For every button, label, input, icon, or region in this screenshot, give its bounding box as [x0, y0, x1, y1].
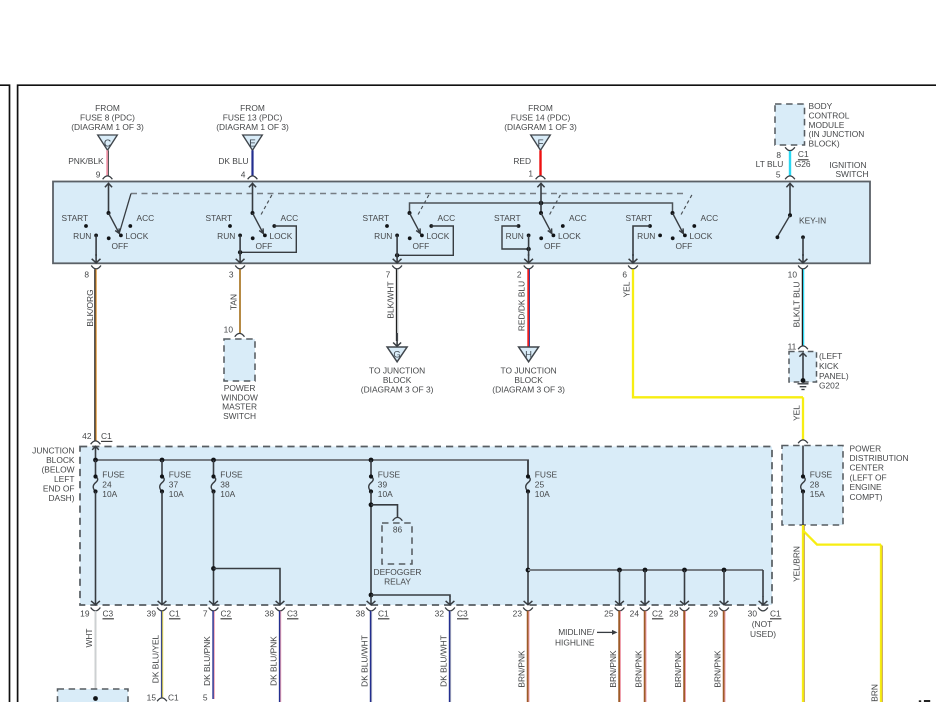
svg-text:DISTRIBUTION: DISTRIBUTION: [850, 453, 909, 463]
contact LOCK: [263, 234, 267, 238]
svg-text:(DIAGRAM 3 OF 3): (DIAGRAM 3 OF 3): [492, 385, 565, 395]
connector arc pin 42: [91, 441, 101, 444]
contact START: [517, 224, 521, 228]
svg-text:RUN: RUN: [217, 231, 235, 241]
switch blade: [410, 213, 420, 232]
connector arc pin 38: [366, 608, 376, 611]
svg-text:38: 38: [265, 609, 275, 619]
svg-text:4: 4: [241, 170, 246, 180]
connector arc pin 29: [719, 608, 729, 611]
wire START contact to output: [502, 226, 529, 249]
svg-text:FUSE: FUSE: [169, 470, 192, 480]
svg-text:15A: 15A: [810, 489, 825, 499]
svg-text:FUSE: FUSE: [810, 470, 833, 480]
svg-text:G: G: [393, 350, 400, 361]
svg-text:FUSE: FUSE: [220, 470, 243, 480]
svg-text:8: 8: [84, 270, 89, 280]
wire to pin 30 (not used): [762, 570, 764, 597]
svg-text:1: 1: [528, 169, 533, 179]
svg-text:SWITCH: SWITCH: [835, 169, 868, 179]
wire fuse 39 to pin 38: [370, 492, 372, 597]
wire switch input to box top edge: [540, 183, 542, 213]
wire BRN/PNK pin 25: [618, 611, 620, 702]
junction block output arrow pin 28: [684, 596, 686, 605]
connector arc pin 15: [157, 698, 167, 701]
svg-text:BRN/PNK: BRN/PNK: [634, 650, 644, 688]
contact LOCK: [552, 234, 556, 238]
node bus at fuse 24: [93, 458, 98, 463]
connector arc pin 32: [445, 608, 455, 611]
svg-text:START: START: [62, 213, 89, 223]
svg-text:ACC: ACC: [281, 213, 299, 223]
junction block output arrow pin 23: [527, 596, 529, 605]
svg-text:(NOT: (NOT: [752, 619, 772, 629]
svg-text:39: 39: [378, 480, 388, 490]
svg-text:START: START: [363, 213, 390, 223]
wire to pin 29: [723, 570, 725, 596]
svg-text:END OF: END OF: [43, 484, 75, 494]
svg-text:7: 7: [203, 609, 208, 619]
wire PDC entry to fuse 28: [802, 446, 804, 477]
blade link (solid): [120, 194, 132, 233]
switch blade: [109, 213, 119, 232]
connector arc pin 19: [91, 608, 101, 611]
wire BLK/LT BLU pin 10 to ground G202: [801, 269, 803, 346]
junction block output arrow pin 32: [449, 596, 451, 605]
connector triangle F: [531, 135, 551, 150]
connector arc pin 38: [275, 608, 285, 611]
contact LOCK: [683, 234, 687, 238]
connector arc ignition pin 6: [628, 266, 638, 269]
svg-text:JUNCTION: JUNCTION: [32, 446, 74, 456]
svg-text:PANEL): PANEL): [819, 371, 849, 381]
svg-text:25: 25: [535, 480, 545, 490]
svg-text:TAN: TAN: [229, 294, 239, 310]
svg-text:30: 30: [748, 609, 758, 619]
svg-text:RUN: RUN: [73, 231, 91, 241]
svg-text:RELAY: RELAY: [384, 577, 411, 587]
contact LOCK: [119, 234, 123, 238]
connector arc ignition pin 7: [392, 266, 402, 269]
node fuse25 branch: [526, 568, 531, 573]
svg-text:7: 7: [386, 270, 391, 280]
contact RUN: [94, 234, 98, 238]
svg-text:DK BLU/PNK: DK BLU/PNK: [269, 636, 279, 686]
power window master switch (dashed box): [224, 339, 255, 381]
ground node: [801, 378, 806, 383]
connector arc pin 25: [615, 608, 625, 611]
wire switch output to box bottom edge: [239, 235, 241, 256]
svg-text:(DIAGRAM 1 OF 3): (DIAGRAM 1 OF 3): [71, 122, 144, 132]
connector arc pin 24: [640, 608, 650, 611]
svg-text:32: 32: [435, 609, 445, 619]
junction block output arrow pin 19: [95, 596, 97, 605]
contact OFF: [107, 236, 111, 240]
bus wire pin1 to switch poles 3-4-5: [410, 203, 673, 213]
svg-text:23: 23: [513, 609, 523, 619]
fuse 24 10A: [95, 460, 97, 477]
svg-text:19: 19: [80, 609, 90, 619]
connector arc pin 9: [103, 176, 113, 179]
svg-text:USED): USED): [750, 629, 776, 639]
svg-text:BRN/PNK: BRN/PNK: [673, 650, 683, 688]
svg-text:ACC: ACC: [701, 213, 719, 223]
svg-text:C1: C1: [798, 149, 809, 159]
svg-text:10A: 10A: [220, 489, 235, 499]
svg-text:H: H: [525, 350, 532, 361]
wire switch output to box bottom edge: [528, 235, 530, 256]
contact RUN: [658, 234, 662, 238]
svg-text:RED: RED: [513, 156, 531, 166]
node fuse39 to defogger relay: [369, 502, 374, 507]
junction block output arrow pin 30: [762, 596, 764, 605]
svg-text:WHT: WHT: [84, 628, 94, 647]
connector arc ignition pin 3: [235, 266, 245, 269]
svg-text:OFF: OFF: [112, 241, 129, 251]
power distribution center (dashed box): [782, 446, 843, 526]
contact RUN: [238, 234, 242, 238]
key-in output contact: [801, 235, 805, 239]
connector triangle H: [519, 347, 539, 362]
connector arc BCM pin 8 C1: [785, 147, 795, 150]
wire BRN/PNK pin 24: [644, 611, 646, 702]
svg-text:BLK/WHT: BLK/WHT: [385, 281, 395, 318]
svg-text:BRN/PNK: BRN/PNK: [713, 650, 723, 688]
connector arc pin 4: [248, 176, 258, 179]
fuse 38 10A: [213, 460, 215, 477]
svg-text:LOCK: LOCK: [558, 231, 581, 241]
wire fuse 39 branch to pin 32: [371, 595, 450, 597]
svg-text:(LEFT: (LEFT: [819, 351, 842, 361]
wire fuse 38 to pin 7: [213, 492, 215, 597]
svg-text:29: 29: [709, 609, 719, 619]
wire fuse 39 to defogger relay pin 86: [371, 505, 398, 517]
wire YEL/BRN branch to right drop: [803, 531, 881, 545]
wire DK BLU/YEL pin 39: [161, 611, 163, 698]
svg-text:25: 25: [604, 609, 614, 619]
wire BLK/ORG pin 8 to junction block pin 42: [94, 269, 96, 440]
connector arc defogger relay pin 86: [393, 517, 403, 520]
svg-text:DK BLU/WHT: DK BLU/WHT: [360, 635, 370, 687]
svg-text:LT BLU: LT BLU: [756, 159, 784, 169]
wire to pin 24: [644, 570, 646, 596]
svg-text:(DIAGRAM 3 OF 3): (DIAGRAM 3 OF 3): [361, 385, 434, 395]
wire TAN pin 3 to power window master switch pin 10: [239, 269, 241, 333]
wire ACC contact to output: [240, 226, 296, 252]
contact START: [385, 224, 389, 228]
contact START: [84, 224, 88, 228]
connector arc pin 11: [798, 346, 808, 349]
svg-text:37: 37: [169, 480, 179, 490]
switch pivot node: [539, 211, 543, 215]
connector arc pin 28: [680, 608, 690, 611]
svg-text:BLOCK: BLOCK: [46, 455, 75, 465]
switch blade: [541, 213, 551, 232]
svg-text:10A: 10A: [102, 489, 117, 499]
svg-text:(DIAGRAM 1 OF 3): (DIAGRAM 1 OF 3): [216, 122, 289, 132]
switch pivot node: [408, 211, 412, 215]
svg-text:(DIAGRAM 1 OF 3): (DIAGRAM 1 OF 3): [504, 122, 577, 132]
page border outer (left): [0, 85, 10, 702]
connector arc pin 23: [523, 608, 533, 611]
svg-text:C: C: [104, 138, 111, 149]
svg-text:42: 42: [82, 431, 92, 441]
junction block output arrow pin 39: [161, 596, 163, 605]
svg-text:28: 28: [810, 480, 820, 490]
svg-text:24: 24: [102, 480, 112, 490]
blade link (dashed): [681, 194, 692, 215]
connector arc ignition pin 8: [91, 266, 101, 269]
wire WHT pin 19: [95, 611, 97, 699]
svg-text:RUN: RUN: [374, 231, 392, 241]
svg-text:C1: C1: [378, 609, 389, 619]
wire YEL/BRN from fuse 28 (left drop): [802, 525, 804, 702]
svg-text:39: 39: [147, 609, 157, 619]
svg-text:LOCK: LOCK: [270, 231, 293, 241]
svg-text:C1: C1: [770, 609, 781, 619]
svg-text:28: 28: [669, 609, 679, 619]
junction block output arrow pin 38: [279, 596, 281, 605]
svg-text:ENGINE: ENGINE: [850, 482, 883, 492]
wire LT BLU from BCM to ignition switch pin 5: [789, 151, 791, 176]
connector arc ignition pin 10: [798, 266, 808, 269]
junction block output arrow pin 38: [370, 596, 372, 605]
svg-text:C2: C2: [221, 609, 232, 619]
wire BRN/PNK pin 29: [723, 611, 725, 702]
svg-text:KEY-IN: KEY-IN: [799, 216, 826, 226]
wire YEL pin 6 to power distribution center fuse 28: [633, 269, 803, 397]
ground symbol G202: [798, 383, 809, 385]
svg-text:C3: C3: [103, 609, 114, 619]
blade link (dashed): [550, 194, 561, 215]
svg-text:POWER: POWER: [850, 443, 882, 453]
wire switch output to box bottom edge: [396, 235, 398, 256]
connector triangle E: [243, 135, 263, 150]
body control module (dashed box): [775, 104, 805, 145]
wire to pin 25: [619, 570, 621, 596]
connector arc pin 1: [536, 176, 546, 179]
module (dashed box, bottom left): [58, 689, 129, 702]
dashed mechanical linkage line: [131, 193, 686, 195]
svg-text:10: 10: [788, 270, 798, 280]
svg-text:YEL/BRN: YEL/BRN: [792, 546, 802, 582]
svg-text:BLK/ORG: BLK/ORG: [85, 289, 95, 326]
junction block output arrow pin 7: [213, 596, 215, 605]
svg-text:E: E: [249, 138, 256, 149]
key-in switch: [789, 183, 791, 215]
svg-text:LOCK: LOCK: [427, 231, 450, 241]
defogger relay (dashed box): [382, 523, 412, 564]
svg-text:BRN/PNK: BRN/PNK: [608, 650, 618, 688]
contact START: [648, 224, 652, 228]
svg-text:DEFOGGER: DEFOGGER: [374, 567, 422, 577]
svg-text:COMPT): COMPT): [850, 492, 883, 502]
svg-text:TO JUNCTION: TO JUNCTION: [501, 366, 557, 376]
contact ACC: [128, 224, 132, 228]
node WHT wire: [93, 696, 98, 701]
svg-text:10: 10: [224, 325, 234, 335]
svg-text:C2: C2: [652, 609, 663, 619]
contact OFF: [251, 236, 255, 240]
svg-text:DASH): DASH): [48, 493, 74, 503]
wire switch input to box top edge: [108, 183, 110, 213]
junction block output arrow pin 29: [723, 596, 725, 605]
svg-text:24: 24: [630, 609, 640, 619]
svg-text:OFF: OFF: [413, 241, 430, 251]
fuse 28 15A: [801, 477, 806, 492]
svg-text:G202: G202: [819, 381, 840, 391]
wire BLK/WHT pin 7 to connector G: [395, 269, 397, 341]
junction block (dashed box): [80, 447, 772, 606]
contact START: [228, 224, 232, 228]
switch blade: [253, 213, 263, 232]
wire switch output to box bottom edge: [95, 235, 97, 256]
fuse 39 10A: [370, 460, 372, 477]
contact OFF: [408, 236, 412, 240]
wire DK BLU/WHT pin 32: [449, 611, 451, 702]
connector arc pin 39: [157, 608, 167, 611]
svg-text:3: 3: [229, 270, 234, 280]
wire RED/DK BLU pin 2 to connector H: [527, 269, 529, 347]
contact ACC: [272, 224, 276, 228]
svg-text:PNK/BLK: PNK/BLK: [68, 156, 104, 166]
wire RED from connector F to ignition switch pin 1: [539, 150, 541, 176]
fuse 37 10A: [161, 460, 163, 477]
contact LOCK: [420, 234, 424, 238]
contact RUN: [527, 234, 531, 238]
wire BRN/PNK pin 23: [527, 611, 529, 702]
svg-text:START: START: [494, 213, 521, 223]
node distribution bus at pin 29: [722, 568, 727, 573]
svg-text:5: 5: [203, 693, 208, 702]
svg-text:RUN: RUN: [506, 231, 524, 241]
svg-text:15: 15: [147, 693, 157, 702]
svg-text:DK BLU/YEL: DK BLU/YEL: [151, 634, 161, 683]
svg-text:FUSE: FUSE: [102, 470, 125, 480]
wire inside ground box: [802, 353, 804, 381]
svg-text:BLK/LT BLU: BLK/LT BLU: [792, 282, 802, 328]
svg-text:10A: 10A: [535, 489, 550, 499]
wire DK BLU/WHT pin 38: [370, 611, 372, 702]
svg-text:C3: C3: [457, 609, 468, 619]
svg-text:G26: G26: [795, 159, 811, 169]
svg-text:TO JUNCTION: TO JUNCTION: [369, 366, 425, 376]
junction node on bus at switch 4: [539, 201, 544, 206]
svg-text:KICK: KICK: [819, 361, 839, 371]
wire START contact to output (switch 5): [633, 226, 650, 256]
wire fuse 25 to pin 23: [527, 492, 529, 597]
svg-text:2: 2: [517, 270, 522, 280]
connector triangle G: [387, 347, 407, 362]
node bus at fuse 37: [160, 458, 165, 463]
connector arc pin 10 PWMS: [235, 333, 245, 336]
node distribution bus at pin 24: [643, 568, 648, 573]
wire BRN/PNK pin 28: [683, 611, 685, 702]
junction block entry arrow pin 42: [95, 446, 97, 460]
node distribution bus at pin 28: [682, 568, 687, 573]
svg-text:(BELOW: (BELOW: [41, 465, 74, 475]
wire DK BLU from connector E to ignition switch pin 4: [251, 150, 253, 176]
svg-text:START: START: [626, 213, 653, 223]
contact ACC: [561, 224, 565, 228]
svg-text:RUN: RUN: [637, 231, 655, 241]
contact RUN: [395, 234, 399, 238]
connector arc pin 30: [758, 608, 768, 611]
node fuse39 branch to pin 32: [369, 593, 374, 598]
wire fuse 37 to pin 39: [161, 492, 163, 597]
svg-text:9: 9: [96, 170, 101, 180]
svg-text:10A: 10A: [169, 489, 184, 499]
svg-text:38: 38: [356, 609, 366, 619]
svg-text:DK BLU: DK BLU: [218, 156, 248, 166]
svg-text:C1: C1: [168, 693, 179, 702]
svg-text:C1: C1: [169, 609, 180, 619]
wire DK BLU/PNK pin 7: [212, 611, 214, 699]
svg-text:38: 38: [220, 480, 230, 490]
connector arc ignition pin 2: [524, 266, 534, 269]
connector arc pin 7: [209, 608, 219, 611]
svg-text:6: 6: [622, 270, 627, 280]
wire fuse 38 branch to pin 38: [214, 569, 281, 597]
junction block output arrow pin 24: [644, 596, 646, 605]
contact ACC: [692, 224, 696, 228]
svg-text:RED/DK BLU: RED/DK BLU: [516, 281, 526, 331]
svg-text:11: 11: [788, 342, 797, 352]
svg-text:BRN/PNK: BRN/PNK: [517, 650, 527, 688]
svg-text:BLOCK: BLOCK: [514, 375, 543, 385]
wire fuse 28 to PDC bottom: [802, 492, 804, 526]
svg-text:DK BLU/PNK: DK BLU/PNK: [202, 636, 212, 686]
node distribution bus at pin 25: [617, 568, 622, 573]
wire to pin 28: [684, 570, 686, 596]
blade link (dashed): [418, 194, 429, 215]
svg-text:ACC: ACC: [137, 213, 155, 223]
switch pivot node: [251, 211, 255, 215]
arrow into connector G: [396, 333, 398, 346]
connector arc pin 5: [785, 176, 795, 179]
svg-text:BLOCK): BLOCK): [809, 139, 840, 149]
svg-text:FUSE: FUSE: [378, 470, 401, 480]
wire ACC contact to output: [397, 226, 453, 255]
svg-text:START: START: [206, 213, 233, 223]
connector triangle C: [98, 135, 118, 150]
node bus at fuse 39: [369, 458, 374, 463]
svg-text:OFF: OFF: [676, 241, 693, 251]
blade link (dashed): [261, 194, 272, 215]
svg-text:SWITCH: SWITCH: [223, 411, 256, 421]
node fuse38 branch: [211, 566, 216, 571]
svg-text:CENTER: CENTER: [850, 463, 884, 473]
contact OFF: [671, 236, 675, 240]
svg-text:HIGHLINE: HIGHLINE: [555, 637, 595, 647]
svg-text:OFF: OFF: [544, 241, 561, 251]
contact ACC: [429, 224, 433, 228]
contact OFF: [539, 236, 543, 240]
svg-text:ACC: ACC: [438, 213, 456, 223]
svg-text:LEFT: LEFT: [54, 474, 74, 484]
svg-text:F: F: [537, 138, 543, 149]
svg-text:10A: 10A: [378, 489, 393, 499]
switch blade: [673, 213, 683, 232]
wire fuse 25 distribution bus: [528, 569, 763, 571]
svg-text:DK BLU/WHT: DK BLU/WHT: [439, 635, 449, 687]
svg-text:YEL/BRN: YEL/BRN: [870, 684, 880, 702]
wire fuse 24 to pin 19: [95, 492, 97, 597]
junction block bus: [96, 459, 529, 461]
svg-text:LOCK: LOCK: [126, 231, 149, 241]
junction block output arrow pin 25: [619, 596, 621, 605]
svg-text:86: 86: [393, 524, 403, 534]
